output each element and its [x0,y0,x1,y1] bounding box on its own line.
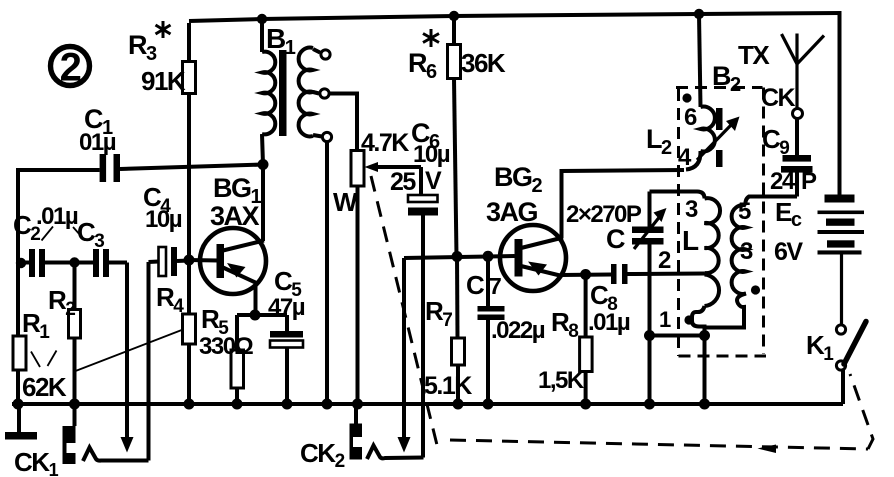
core L2 adjustable [716,108,723,130]
transformer B1 secondary [299,48,313,137]
svg-text:P: P [801,168,817,195]
node top rail R6 junction [449,11,459,21]
pointer ticks 62K to R1 R2 [31,352,40,368]
svg-text:W: W [333,187,358,217]
pointer ticks .01u to C2 C3 [42,227,54,241]
svg-text:4.7K: 4.7K [361,129,409,157]
svg-text:7: 7 [489,273,501,299]
node BG1 base junction [184,255,195,266]
svg-text:L: L [682,225,699,256]
svg-text:330Ω: 330Ω [199,333,254,360]
svg-text:10µ: 10µ [145,206,182,233]
transformer B1 primary [260,19,264,52]
svg-text:1: 1 [659,307,671,332]
jack CK2 plug [354,404,358,424]
capacitor C7 [486,256,490,306]
svg-text:C: C [466,270,485,300]
node R7 top junction [452,251,463,262]
resistor R8 [584,275,588,338]
label R6 star [423,29,439,47]
svg-text:TX: TX [738,40,770,70]
wire BG1 emitter down [254,283,258,315]
capacitor C variable [648,192,652,228]
svg-text:1,5K: 1,5K [538,367,585,394]
jack CK1 sleeve contact [17,404,21,432]
svg-text:6: 6 [684,104,697,131]
wire left rail [16,172,20,336]
node BG1 emitter junction [250,310,261,321]
transistor BG1 [200,228,266,294]
svg-text:62K: 62K [22,372,67,402]
wire pin1 row [650,334,705,338]
wire bottom rail [12,402,843,406]
terminal B1 tap bottom [313,135,322,137]
wire battery to K1 [840,255,843,326]
wire B1 bottom tap to ground rail [325,142,329,405]
capacitor C5 [285,315,289,331]
wire BG2 collector to L2 pin 4 [562,170,685,238]
node top rail L2 junction [694,9,704,19]
node R8 top junction [580,269,591,280]
svg-text:3AG: 3AG [486,197,538,227]
wire top rail [189,13,842,21]
terminal CK antenna socket [793,109,803,119]
capacitor C2 [29,249,35,277]
label R3 star [156,21,171,38]
wire K1 to rail [841,369,845,404]
capacitor C9 [795,119,799,156]
wire base line down to CK2 arrow contact [402,258,406,437]
potentiometer W [351,151,364,187]
wire right rail [838,13,842,195]
capacitor C3 [93,249,99,277]
wire B1 middle tap to W [330,94,358,151]
svg-text:.01µ: .01µ [588,309,630,336]
node rail dots [13,399,24,410]
node antenna winding polarity dot [751,285,760,294]
battery Ec [825,195,855,203]
wire C3 down to CK1 arrow contact [125,263,129,439]
wire BG2 base line [404,256,515,258]
node B1 collector C1 junction [258,159,269,170]
shield box B2 dashed [676,86,763,89]
switch K1 [836,325,845,334]
stamp circled 2 [51,47,90,86]
transformer B1 core [279,50,287,136]
node C7 base junction [483,251,494,262]
linkage dashed to K1 [850,374,873,449]
resistor R5 [235,315,239,350]
svg-text:CK: CK [761,84,796,112]
svg-text:5: 5 [738,198,751,225]
resistor R3 [187,23,191,62]
wire CK1 tip contact [83,448,149,462]
jack CK1 plug [73,404,77,426]
resistor R6 [452,16,456,45]
coil antenna winding pins 5-3 [746,197,797,206]
svg-text:2: 2 [658,247,671,274]
wire BG2 emitter line [561,273,611,278]
svg-text:47µ: 47µ [268,294,305,321]
resistor R7 [455,257,460,339]
linkage dashed W to CK2 [371,176,437,445]
coil L upper [705,198,721,273]
wire L pin3 line [650,192,705,199]
svg-text:2: 2 [60,46,81,90]
wire CK1 tip up to C4 [147,262,151,461]
capacitor C4 [149,260,159,265]
wire C6 down to CK2 tip [421,213,425,458]
svg-text:2×270P: 2×270P [566,201,642,228]
svg-text:25: 25 [390,168,416,196]
wire C2 row from left rail [16,258,26,268]
capacitor C6 [419,167,423,194]
wire W wiper arrow [378,165,421,169]
svg-text:3AX: 3AX [210,201,260,231]
svg-text:01µ: 01µ [79,129,116,156]
terminal B1 tap top [313,49,320,53]
svg-text:.01µ: .01µ [36,203,78,230]
svg-text:36K: 36K [461,48,506,78]
capacitor C1 [16,168,100,172]
coil L lower [705,275,720,307]
svg-text:10µ: 10µ [413,141,450,168]
node L2 polarity dot [682,93,691,102]
wire L pin1 curl [692,306,705,336]
node C bottom junction [644,330,655,341]
node top rail B1 junction [257,14,267,24]
terminal B1 tap middle [313,92,319,94]
resistor R4 [187,260,191,314]
resistor R2 [73,263,77,310]
svg-text:.022µ: .022µ [491,317,545,344]
svg-text:5.1K: 5.1K [424,372,472,400]
svg-text:3: 3 [740,238,753,265]
transistor BG2 [500,225,566,291]
svg-text:24: 24 [770,168,796,195]
pointer line 62K to R4 [76,330,184,372]
antenna TX [795,64,798,109]
svg-text:C: C [606,224,625,254]
svg-text:V: V [425,167,442,195]
coil L2 [699,14,701,107]
wire CK2 tip contact [367,446,424,460]
node pin1 junction [699,330,710,341]
svg-text:91K: 91K [141,66,186,96]
wire pin1 down to rail [703,336,707,405]
node L pin1 polarity dot [684,315,693,324]
node R2 top junction [69,257,79,267]
resistor R1 [13,336,26,370]
capacitor C8 [611,264,617,284]
svg-text:6V: 6V [774,238,803,266]
svg-text:3: 3 [685,196,698,223]
linkage dashed bottom run [450,440,868,449]
